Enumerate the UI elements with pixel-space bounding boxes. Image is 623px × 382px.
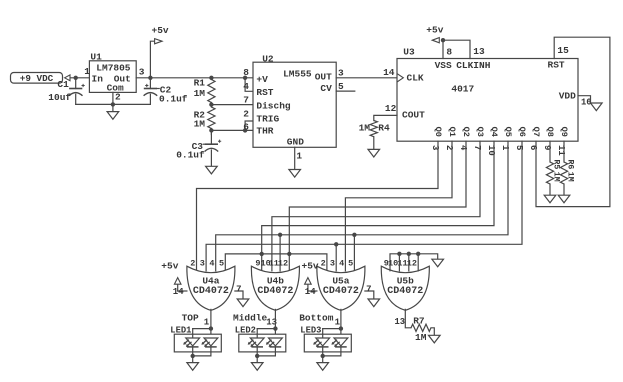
svg-text:3: 3 [330, 259, 335, 269]
wire COUT to R4 [374, 115, 397, 120]
svg-text:Q0: Q0 [433, 127, 443, 137]
ground VDD [591, 103, 603, 111]
node C2 junction [148, 76, 152, 80]
labels Q0-Q9 [433, 127, 569, 137]
ground U5b inputs [432, 259, 444, 267]
pin 1 label U5a [335, 317, 341, 327]
resistor R2 1M [194, 107, 215, 135]
svg-text:Bottom: Bottom [299, 313, 334, 324]
svg-text:LM7805: LM7805 [96, 63, 131, 74]
input arrow [65, 75, 70, 81]
pin 5 label U2 [338, 81, 344, 92]
svg-text:LED1: LED1 [170, 325, 191, 335]
svg-text:2: 2 [115, 92, 121, 103]
wire U4a output [193, 309, 213, 338]
svg-text:TRIG: TRIG [256, 114, 279, 125]
pin 16 label U3 [581, 98, 592, 108]
svg-text:OUT: OUT [315, 71, 332, 82]
svg-text:10uf: 10uf [48, 92, 71, 103]
svg-text:CD4072: CD4072 [193, 286, 229, 297]
svg-text:CD4072: CD4072 [323, 286, 359, 297]
svg-text:3: 3 [338, 67, 344, 78]
svg-text:14: 14 [173, 287, 184, 297]
pin 15 label U3 [557, 45, 569, 56]
svg-text:2: 2 [321, 259, 326, 269]
svg-text:+9 VDC: +9 VDC [20, 73, 54, 84]
ground LED1 [187, 363, 199, 371]
svg-text:4: 4 [209, 259, 214, 269]
wire Q6 to U4a pin3 [206, 141, 522, 271]
wire U4a pin5 to U5a pin2 [225, 254, 327, 271]
svg-text:7: 7 [366, 284, 371, 294]
svg-text:CLK: CLK [407, 73, 424, 84]
resistor R6 1M [560, 160, 574, 196]
svg-text:Q5: Q5 [503, 127, 513, 137]
wire LED2 cathodes [255, 354, 275, 363]
ground R7 [429, 335, 441, 343]
ground U5a pin7 [365, 284, 380, 306]
svg-text:U3: U3 [403, 47, 415, 58]
wire U5b output to R7 [405, 309, 411, 327]
svg-text:1: 1 [204, 318, 210, 328]
svg-text:1M: 1M [194, 88, 206, 99]
svg-text:RST: RST [548, 60, 565, 71]
wire U2 OUT to U3 CLK [336, 77, 397, 79]
wire LED3 cathodes [321, 354, 341, 363]
svg-text:CV: CV [320, 83, 332, 94]
svg-text:13: 13 [473, 46, 485, 57]
svg-text:Q2: Q2 [461, 127, 471, 137]
wire bottom rail C1-C2 [76, 103, 151, 105]
svg-text:15: 15 [557, 45, 569, 56]
svg-text:COUT: COUT [402, 110, 425, 121]
svg-text:R7: R7 [413, 315, 425, 326]
capacitor C2 [144, 78, 188, 105]
pin 3 label U2 [338, 67, 344, 78]
wire LED1 cathodes [191, 354, 211, 363]
pin 1 label U4a [204, 318, 210, 328]
wire U1 pin2 to ground rail [112, 92, 114, 104]
wire RST loop (Q7 to RST) [536, 37, 610, 206]
input pin labels U4b [255, 259, 288, 269]
pin 7 label U2 [243, 95, 249, 106]
svg-text:LED2: LED2 [235, 325, 256, 335]
pin 8 label U3 [446, 46, 452, 57]
node ground rail junction [111, 102, 115, 106]
pin 13 label U5b [394, 317, 405, 327]
power +5v at U1 [150, 25, 169, 78]
power +5v U4a pin14 [161, 261, 187, 297]
wire Q4 to U4b pin9 [260, 141, 495, 271]
wire input to U1 [70, 77, 89, 79]
svg-text:Middle: Middle [233, 313, 268, 324]
input pin labels U5a [321, 259, 354, 269]
ground LED3 [317, 363, 329, 371]
svg-text:VDD: VDD [559, 91, 576, 102]
wire VSS CLKINH to +5v [441, 38, 470, 59]
svg-text:+5v: +5v [161, 261, 178, 272]
svg-text:12: 12 [278, 259, 288, 269]
or-gate U5a CD4072 [317, 266, 365, 310]
pin 14 label U3 [383, 67, 395, 78]
pin number labels Q0-Q9 [430, 145, 566, 156]
svg-text:8: 8 [243, 67, 249, 78]
resistor R4 1M [359, 121, 390, 150]
svg-text:LM555: LM555 [283, 69, 312, 80]
svg-text:0.1uf: 0.1uf [176, 149, 205, 160]
ground U4a pin7 [235, 284, 249, 306]
svg-text:CD4072: CD4072 [387, 286, 423, 297]
wire CV stub [336, 90, 355, 92]
svg-text:GND: GND [287, 136, 304, 147]
counter U3 4017 [397, 47, 578, 142]
wire U4b output [257, 309, 277, 338]
pin 13 label U4b [266, 317, 277, 327]
svg-text:8: 8 [446, 46, 452, 57]
svg-text:R4: R4 [378, 122, 390, 133]
wire U5b inputs tie [390, 252, 438, 271]
svg-text:1M: 1M [194, 119, 206, 130]
svg-text:R5: R5 [552, 160, 561, 170]
label Bottom [299, 313, 334, 324]
wire Q1 to U5a pin4 [345, 141, 452, 271]
pin 1 label U1 [84, 66, 90, 77]
svg-text:7: 7 [236, 284, 241, 294]
pin 3 label U1 [139, 66, 145, 77]
svg-text:14: 14 [305, 287, 316, 297]
wire tap U5a pin3 [334, 242, 338, 271]
svg-text:CLKINH: CLKINH [456, 60, 491, 71]
svg-text:U4b: U4b [267, 275, 284, 286]
svg-text:+5v: +5v [426, 24, 443, 35]
svg-text:Q4: Q4 [489, 127, 499, 137]
ground R4 [368, 149, 380, 157]
svg-text:U2: U2 [262, 54, 274, 65]
svg-text:14: 14 [383, 67, 395, 78]
svg-text:5: 5 [338, 81, 344, 92]
svg-text:0.1uf: 0.1uf [159, 94, 188, 105]
svg-text:2: 2 [243, 109, 249, 120]
svg-text:13: 13 [394, 317, 405, 327]
ground R6 [558, 195, 570, 203]
power +5v U5a pin14 [302, 261, 319, 297]
svg-text:12: 12 [385, 103, 397, 114]
power +5v at U3 [426, 24, 443, 43]
ground C3 [206, 166, 218, 174]
svg-text:U1: U1 [90, 51, 102, 62]
svg-text:Dischg: Dischg [256, 101, 291, 112]
svg-text:R6: R6 [566, 160, 575, 170]
svg-text:+5v: +5v [152, 25, 169, 36]
svg-text:1: 1 [296, 151, 302, 162]
resistor R7 1M [411, 315, 434, 343]
wire Q2 to U4b pin12 [287, 141, 466, 271]
svg-text:+5v: +5v [302, 261, 319, 272]
wire TRIG tie [243, 121, 253, 133]
led LED2 pair [235, 325, 286, 356]
wire R1/R2 to Dischg [209, 102, 253, 106]
svg-text:CD4072: CD4072 [257, 286, 293, 297]
svg-text:6: 6 [243, 121, 249, 132]
wire U2 GND [294, 147, 296, 169]
wire U5a output [323, 309, 343, 338]
pin 6 label U2 [243, 121, 249, 132]
svg-text:6: 6 [528, 145, 538, 150]
ground LED2 [251, 363, 263, 371]
svg-text:TOP: TOP [182, 312, 199, 323]
svg-text:1M: 1M [359, 122, 371, 133]
input pin labels U5b [384, 259, 417, 269]
svg-text:4: 4 [243, 81, 249, 92]
svg-text:C1: C1 [57, 79, 69, 90]
wire Q9 to R6 [563, 141, 565, 162]
svg-text:Q8: Q8 [545, 127, 555, 137]
svg-text:In: In [92, 74, 104, 85]
wire Q8 to R5 [549, 141, 551, 162]
svg-text:Q7: Q7 [531, 127, 541, 137]
pin 1 label U2 [296, 151, 302, 162]
svg-text:1: 1 [335, 317, 341, 327]
svg-text:R1: R1 [194, 78, 206, 89]
svg-text:1M: 1M [415, 332, 427, 343]
svg-text:5: 5 [348, 259, 353, 269]
svg-text:Q6: Q6 [517, 127, 527, 137]
wire Q0 to U4a pin2 [197, 141, 439, 271]
input pin labels U4a [190, 259, 224, 269]
pin 12 label U3 [385, 103, 397, 114]
or-gate U4a CD4072 [187, 266, 235, 310]
wire Q5 to U4a pin4 [216, 141, 508, 271]
svg-text:U5a: U5a [332, 275, 349, 286]
svg-text:3: 3 [200, 259, 205, 269]
capacitor C1 [48, 78, 84, 105]
ground U2 [289, 170, 301, 178]
svg-text:Q3: Q3 [475, 127, 485, 137]
svg-text:LED3: LED3 [300, 325, 321, 335]
pin 2 label U2 [243, 109, 249, 120]
led LED1 pair [170, 325, 221, 356]
svg-text:2: 2 [190, 259, 195, 269]
wire Q3 to U4b pin10 [272, 141, 480, 271]
resistor R5 1M [546, 160, 560, 196]
svg-text:4017: 4017 [451, 83, 474, 94]
svg-text:+V: +V [256, 74, 268, 85]
capacitor C3 [176, 134, 221, 167]
svg-text:Q1: Q1 [447, 127, 457, 137]
svg-text:7: 7 [243, 95, 249, 106]
pin 13 label U3 [473, 46, 485, 57]
svg-text:U5b: U5b [397, 275, 414, 286]
or-gate U4b CD4072 [251, 266, 299, 310]
node +9VDC input terminal [11, 73, 63, 85]
ground U1 [107, 104, 119, 119]
svg-text:1: 1 [84, 66, 90, 77]
svg-text:Q9: Q9 [559, 127, 569, 137]
svg-text:THR: THR [256, 125, 273, 136]
wire tap U4b pin11 [278, 233, 282, 271]
svg-text:3: 3 [139, 66, 145, 77]
svg-text:U4a: U4a [202, 275, 219, 286]
label TOP [182, 312, 199, 323]
led LED3 pair [300, 325, 351, 356]
wire VDD to ground [578, 96, 591, 103]
label Middle [233, 313, 268, 324]
pin 2 label U1 [115, 92, 121, 103]
or-gate U5b CD4072 [381, 266, 429, 310]
wire tap U5a pin5 [352, 233, 356, 271]
wire U1 out to U2 [136, 77, 253, 79]
svg-text:1M: 1M [552, 172, 561, 182]
pin 8 label U2 [243, 67, 249, 78]
pin 4 label U2 [243, 81, 249, 92]
resistor R1 1M [194, 76, 215, 107]
clock input symbol U3 [397, 74, 403, 82]
ground R5 [544, 195, 556, 203]
regulator U1 LM7805 [89, 51, 136, 93]
svg-text:4: 4 [339, 259, 344, 269]
svg-text:VSS: VSS [435, 60, 452, 71]
svg-text:5: 5 [219, 259, 224, 269]
node input junction [74, 76, 78, 80]
timer U2 LM555 [253, 54, 336, 148]
wire R2 to THR [209, 128, 253, 132]
svg-text:RST: RST [256, 87, 273, 98]
wire RST tie [243, 76, 253, 92]
svg-text:1M: 1M [566, 172, 575, 182]
